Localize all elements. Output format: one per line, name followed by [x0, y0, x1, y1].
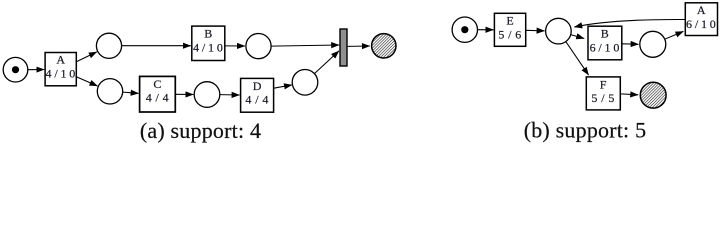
place q2 — [640, 31, 666, 57]
svg-text:6/10: 6/10 — [686, 17, 719, 31]
wire E to q1 — [526, 29, 545, 32]
wire B to p3 — [225, 45, 245, 47]
wire p1 to B — [122, 45, 191, 47]
place p1 — [96, 33, 121, 58]
svg-text:B: B — [601, 27, 609, 41]
transition B (6/10) — [588, 26, 622, 60]
wire q0 to E — [478, 29, 494, 31]
wire A to p2 — [77, 77, 98, 86]
svg-text:D: D — [253, 79, 262, 93]
svg-text:C: C — [153, 77, 161, 91]
svg-text:4/10: 4/10 — [46, 67, 79, 81]
place p3 — [246, 34, 271, 59]
transition A (6/10) — [685, 3, 718, 36]
wire F to end place — [621, 93, 639, 96]
svg-text:F: F — [600, 77, 607, 91]
wire q1 to B — [571, 35, 585, 39]
wire p2 to C — [123, 92, 139, 93]
wire D to p5 — [274, 85, 292, 88]
wire A to p1 — [77, 52, 97, 62]
svg-text:4/4: 4/4 — [146, 91, 173, 105]
silent transition bar — [340, 29, 347, 66]
wire B to q2 — [622, 43, 639, 45]
wire C to p4 — [176, 93, 194, 95]
place p2 — [97, 79, 122, 104]
transition F (5/5) — [586, 77, 620, 110]
wire p5 to silent transition — [314, 51, 339, 74]
end place (hatched) — [372, 34, 396, 58]
svg-text:A: A — [697, 3, 706, 17]
svg-text:5/6: 5/6 — [498, 27, 525, 41]
svg-text:(b) support: 5: (b) support: 5 — [524, 118, 647, 143]
svg-text:B: B — [204, 27, 212, 41]
svg-text:4/10: 4/10 — [193, 40, 226, 54]
place p4 — [194, 82, 220, 108]
svg-text:E: E — [506, 14, 513, 28]
wire A back to q1 (curved) — [574, 19, 685, 27]
svg-text:6/10: 6/10 — [590, 40, 623, 54]
transition E (5/6) — [494, 13, 525, 46]
place p0 (initial marking) — [3, 57, 28, 82]
wire p3 to silent transition — [271, 45, 339, 46]
end place (hatched) — [640, 82, 666, 108]
wire q1 to F — [566, 42, 589, 76]
svg-text:5/5: 5/5 — [591, 91, 618, 105]
wire p0 to A — [28, 69, 45, 71]
svg-text:(a) support: 4: (a) support: 4 — [140, 118, 261, 143]
place p5 — [292, 70, 318, 96]
transition D (4/4) — [241, 78, 274, 112]
wire q2 to A — [665, 31, 684, 39]
transition A (4/10) — [45, 53, 78, 86]
place q0 (initial marking) — [452, 17, 477, 42]
wire bar to end place — [348, 45, 370, 47]
transition B (4/10) — [192, 26, 226, 60]
wire p4 to D — [220, 94, 240, 96]
transition C (4/4) — [140, 76, 176, 112]
svg-text:A: A — [56, 53, 65, 67]
svg-text:4/4: 4/4 — [245, 93, 272, 107]
place q1 — [546, 18, 572, 44]
